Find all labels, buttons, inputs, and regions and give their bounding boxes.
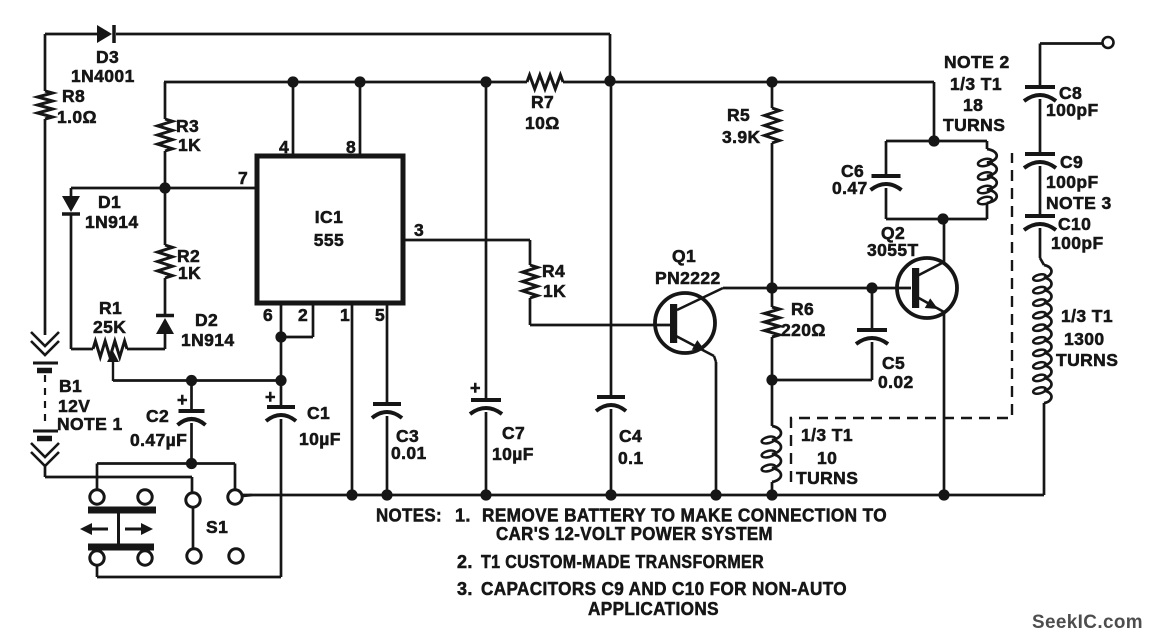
wire Q1 emitter xyxy=(710,356,721,501)
svg-text:1K: 1K xyxy=(543,281,566,301)
svg-text:T1 CUSTOM-MADE TRANSFORMER: T1 CUSTOM-MADE TRANSFORMER xyxy=(481,552,764,572)
svg-text:IC1: IC1 xyxy=(315,207,343,227)
svg-text:10: 10 xyxy=(817,448,837,468)
diode D1 xyxy=(62,188,80,349)
svg-text:TURNS: TURNS xyxy=(796,468,858,488)
svg-text:1/3 T1: 1/3 T1 xyxy=(801,425,853,445)
label R3 xyxy=(176,116,199,136)
svg-text:6: 6 xyxy=(263,305,273,325)
inductor 1/3 T1 1300 turns xyxy=(1032,265,1051,403)
svg-text:TURNS: TURNS xyxy=(943,115,1005,135)
switch S1 slider bar bottom xyxy=(88,544,154,551)
label 100pF (C10) xyxy=(1051,233,1104,253)
svg-text:1N914: 1N914 xyxy=(85,212,139,232)
resistor R4 xyxy=(523,265,538,298)
capacitor C3 xyxy=(372,404,402,501)
battery B1 bottom cell xyxy=(33,431,58,439)
label TURNS (1300t) xyxy=(1056,350,1118,370)
wire D1 to R1 xyxy=(71,348,93,351)
capacitor C4 xyxy=(596,397,626,501)
label 0.01 xyxy=(391,443,427,463)
svg-text:R5: R5 xyxy=(727,105,750,125)
svg-text:0.02: 0.02 xyxy=(878,372,914,392)
terminal antenna xyxy=(1103,37,1114,48)
label 5 xyxy=(375,305,385,325)
label R2 xyxy=(177,246,200,266)
transformer primary top edge xyxy=(886,140,987,143)
battery B1 top cell xyxy=(33,363,58,371)
wire battery to S1 pole xyxy=(45,464,192,493)
svg-text:C9: C9 xyxy=(1060,152,1083,172)
switch S1 terminal g xyxy=(187,549,201,563)
label 3055T xyxy=(867,240,919,260)
label 8 xyxy=(346,137,356,157)
label B1 xyxy=(59,376,82,396)
switch S1 terminal a xyxy=(90,490,104,504)
svg-text:1.: 1. xyxy=(455,506,471,526)
svg-text:3: 3 xyxy=(414,220,424,240)
svg-text:REMOVE BATTERY TO MAKE CONNECT: REMOVE BATTERY TO MAKE CONNECTION TO xyxy=(482,506,887,526)
wire R2 to D2 xyxy=(164,278,167,316)
label C8 xyxy=(1059,83,1082,103)
label C3 xyxy=(396,426,419,446)
pin 2 wire xyxy=(281,303,313,337)
svg-text:1N914: 1N914 xyxy=(181,330,235,350)
label 7 xyxy=(238,168,248,188)
wire R3 column xyxy=(164,82,167,119)
wire S1 bottom rail xyxy=(97,565,281,577)
svg-text:0.1: 0.1 xyxy=(618,448,644,468)
svg-text:C5: C5 xyxy=(882,353,905,373)
wire R8 to battery xyxy=(44,119,47,335)
svg-text:220Ω: 220Ω xyxy=(781,320,826,340)
svg-text:1300: 1300 xyxy=(1064,329,1105,349)
svg-text:1.0Ω: 1.0Ω xyxy=(57,107,97,127)
battery dashed link xyxy=(44,375,46,427)
wire R5 top xyxy=(766,76,777,108)
label C6 xyxy=(841,161,864,181)
label C10 xyxy=(1058,214,1091,234)
label NOTE 2 xyxy=(944,52,1010,72)
svg-text:CAR'S 12-VOLT POWER SYSTEM: CAR'S 12-VOLT POWER SYSTEM xyxy=(496,524,773,544)
svg-text:555: 555 xyxy=(314,230,344,250)
pin 8 wire xyxy=(354,76,365,156)
label NOTE 1 xyxy=(57,414,123,434)
label 18 xyxy=(963,95,983,115)
label 1K (R3) xyxy=(178,135,201,155)
svg-text:C2: C2 xyxy=(146,406,169,426)
switch S1 terminal h xyxy=(229,549,243,563)
wire R4 to Q1 base xyxy=(530,298,671,325)
label PN2222 xyxy=(655,268,721,288)
note line 3 xyxy=(457,552,764,572)
svg-text:NOTE 2: NOTE 2 xyxy=(944,52,1010,72)
label C5 xyxy=(882,353,905,373)
wire VCC mid rail (R3 top to transformer primary) xyxy=(164,81,934,84)
wire wiper rail xyxy=(113,379,281,382)
label S1 xyxy=(206,517,228,537)
pin 5 wire xyxy=(386,303,389,404)
svg-text:SeekIC.com: SeekIC.com xyxy=(1032,611,1143,633)
label Q1 xyxy=(672,246,696,266)
label R8 xyxy=(62,86,85,106)
svg-text:C10: C10 xyxy=(1058,214,1091,234)
svg-text:7: 7 xyxy=(238,168,248,188)
label 0.1 xyxy=(618,448,644,468)
note line 2 xyxy=(496,524,773,544)
wire R5 to collector node xyxy=(771,143,774,288)
wire R1 to D2 xyxy=(127,348,165,351)
svg-text:12V: 12V xyxy=(58,396,90,416)
svg-text:4: 4 xyxy=(279,137,289,157)
connector chevrons bottom xyxy=(31,443,59,466)
label 10µF (C1) xyxy=(299,429,341,449)
transistor Q2 xyxy=(897,258,957,318)
label 1300 xyxy=(1064,329,1105,349)
label C1 xyxy=(307,403,330,423)
svg-text:10µF: 10µF xyxy=(492,444,534,464)
switch S1 terminal f xyxy=(138,551,152,565)
wire node to R2 xyxy=(164,188,167,245)
svg-text:3.9K: 3.9K xyxy=(722,127,761,147)
svg-text:18: 18 xyxy=(963,95,983,115)
wire rail to primary xyxy=(928,82,939,147)
wire S1 d to ground rail xyxy=(242,495,252,496)
label 4 xyxy=(279,137,289,157)
svg-text:25K: 25K xyxy=(93,317,126,337)
svg-text:1K: 1K xyxy=(178,135,201,155)
wire R6 node to coil xyxy=(771,380,774,426)
wire pin7 node xyxy=(71,182,257,193)
wire left branch top (R8 lead) xyxy=(44,34,47,91)
label R7 xyxy=(531,92,554,112)
connector chevrons top xyxy=(31,332,59,355)
wire S1 c to g xyxy=(192,507,195,549)
resistor R5 xyxy=(765,108,780,143)
switch S1 terminal c xyxy=(186,493,200,507)
svg-text:C7: C7 xyxy=(502,423,525,443)
label 3.9K xyxy=(722,127,761,147)
label C9 xyxy=(1060,152,1083,172)
label 0.47µF xyxy=(130,430,187,450)
capacitor C1 xyxy=(266,381,296,578)
label 1/3 T1 (10t) xyxy=(801,425,853,445)
label + (C2) xyxy=(177,390,188,410)
pin 6 wire xyxy=(275,303,286,386)
resistor R2 xyxy=(158,245,173,278)
label 1.0Ω xyxy=(57,107,97,127)
label 100pF (C9) xyxy=(1046,172,1099,192)
svg-text:R3: R3 xyxy=(176,116,199,136)
note line 1 xyxy=(376,506,887,526)
label TURNS (10t) xyxy=(796,468,858,488)
capacitor C8 xyxy=(1024,87,1056,154)
label Q2 xyxy=(881,223,905,243)
svg-text:R4: R4 xyxy=(542,261,565,281)
label TURNS (18t) xyxy=(943,115,1005,135)
svg-text:100pF: 100pF xyxy=(1051,233,1104,253)
label D3 xyxy=(96,47,119,67)
svg-text:R7: R7 xyxy=(531,92,554,112)
transformer primary bottom edge xyxy=(886,218,987,221)
label 10 xyxy=(817,448,837,468)
label C4 xyxy=(619,426,642,446)
svg-text:2: 2 xyxy=(298,305,308,325)
svg-text:NOTE 1: NOTE 1 xyxy=(57,414,123,434)
svg-text:10Ω: 10Ω xyxy=(525,113,560,133)
label 1N4001 xyxy=(71,66,135,86)
label C2 xyxy=(146,406,169,426)
svg-text:100pF: 100pF xyxy=(1046,172,1099,192)
switch S1 slider link xyxy=(117,510,120,547)
svg-text:1K: 1K xyxy=(178,263,201,283)
dashed separator xyxy=(791,153,1012,482)
svg-text:1/3 T1: 1/3 T1 xyxy=(950,74,1002,94)
label 3 xyxy=(414,220,424,240)
svg-text:0.47µF: 0.47µF xyxy=(130,430,187,450)
resistor R1 (pot) xyxy=(93,341,127,357)
label R5 xyxy=(727,105,750,125)
switch S1 terminal e xyxy=(90,551,104,565)
label 1K (R4) xyxy=(543,281,566,301)
label 1N914 (D1) xyxy=(85,212,139,232)
label 100pF (C8) xyxy=(1046,100,1099,120)
pin 1 wire xyxy=(346,303,357,501)
wire R3 to node xyxy=(164,151,167,188)
label D2 xyxy=(195,310,218,330)
svg-text:R8: R8 xyxy=(62,86,85,106)
svg-text:B1: B1 xyxy=(59,376,82,396)
svg-text:S1: S1 xyxy=(206,517,228,537)
pin 3 wire xyxy=(403,240,530,265)
capacitor C5 xyxy=(772,288,888,380)
label 6 xyxy=(263,305,273,325)
svg-text:+: + xyxy=(177,390,188,410)
switch S1 terminal b xyxy=(138,490,152,504)
label IC1 xyxy=(315,207,343,227)
svg-text:10µF: 10µF xyxy=(299,429,341,449)
svg-text:C4: C4 xyxy=(619,426,642,446)
label 0.02 xyxy=(878,372,914,392)
svg-text:PN2222: PN2222 xyxy=(655,268,721,288)
label + (C1) xyxy=(265,387,276,407)
label 12V xyxy=(58,396,90,416)
svg-text:8: 8 xyxy=(346,137,356,157)
capacitor C2 xyxy=(178,375,206,469)
svg-text:3055T: 3055T xyxy=(867,240,919,260)
wire S1 top link xyxy=(97,464,235,491)
pot wiper arrow xyxy=(107,351,119,381)
resistor R3 xyxy=(158,119,173,151)
svg-text:D1: D1 xyxy=(98,192,121,212)
label 1N914 (D2) xyxy=(181,330,235,350)
label R1 xyxy=(99,298,122,318)
label C7 xyxy=(502,423,525,443)
capacitor C9 xyxy=(1024,154,1056,216)
wire ground rail xyxy=(242,494,1044,497)
note line 5 xyxy=(588,599,719,619)
pin 4 wire xyxy=(287,76,298,156)
svg-text:R1: R1 xyxy=(99,298,122,318)
capacitor C6 xyxy=(871,141,902,219)
svg-text:1/3 T1: 1/3 T1 xyxy=(1061,306,1113,326)
wire C4 column xyxy=(610,81,613,397)
svg-text:0.47: 0.47 xyxy=(832,178,868,198)
label + (C7) xyxy=(470,378,481,398)
svg-text:1: 1 xyxy=(340,305,350,325)
label 1/3 T1 (18t) xyxy=(950,74,1002,94)
label 0.47 xyxy=(832,178,868,198)
svg-text:Q1: Q1 xyxy=(672,246,696,266)
svg-text:D2: D2 xyxy=(195,310,218,330)
resistor R6 xyxy=(765,288,780,337)
switch S1 arrows xyxy=(80,523,153,535)
svg-text:5: 5 xyxy=(375,305,385,325)
svg-text:TURNS: TURNS xyxy=(1056,350,1118,370)
label 1 xyxy=(340,305,350,325)
svg-text:APPLICATIONS: APPLICATIONS xyxy=(588,599,719,619)
op-amp IC1 box xyxy=(257,156,403,303)
resistor R7 xyxy=(527,75,616,89)
label NOTE 3 xyxy=(1046,193,1112,213)
svg-text:R6: R6 xyxy=(791,299,814,319)
label 1/3 T1 (1300t) xyxy=(1061,306,1113,326)
wire antenna xyxy=(1040,44,1103,88)
svg-text:100pF: 100pF xyxy=(1046,100,1099,120)
inductor 1/3 T1 18 turns xyxy=(977,141,997,219)
label 220Ω xyxy=(781,320,826,340)
svg-text:CAPACITORS C9 AND C10 FOR NON-: CAPACITORS C9 AND C10 FOR NON-AUTO xyxy=(481,579,847,599)
wire Q2 collector xyxy=(937,213,948,262)
watermark SeekIC.com xyxy=(1032,611,1143,633)
svg-text:0.01: 0.01 xyxy=(391,443,427,463)
svg-text:+: + xyxy=(265,387,276,407)
svg-text:+: + xyxy=(470,378,481,398)
svg-text:3.: 3. xyxy=(457,579,473,599)
wire R6 bottom xyxy=(766,337,777,386)
diode D3 xyxy=(97,25,114,43)
label 25K xyxy=(93,317,126,337)
svg-text:NOTE 3: NOTE 3 xyxy=(1046,193,1112,213)
svg-text:C1: C1 xyxy=(307,403,330,423)
label R4 xyxy=(542,261,565,281)
switch S1 terminal d xyxy=(228,490,242,504)
svg-text:2.: 2. xyxy=(457,552,473,572)
label 10µF (C7) xyxy=(492,444,534,464)
label 10Ω xyxy=(525,113,560,133)
label R6 xyxy=(791,299,814,319)
label 555 xyxy=(314,230,344,250)
wire Q2 emitter xyxy=(938,312,949,501)
svg-text:1N4001: 1N4001 xyxy=(71,66,135,86)
capacitor C7 xyxy=(470,400,502,501)
wire C7 column xyxy=(480,76,491,400)
resistor R8 xyxy=(38,91,53,119)
label 1K (R2) xyxy=(178,263,201,283)
wire top rail (D3 anode rail from R8 top to C4 column) xyxy=(45,34,610,80)
switch S1 slider bar top xyxy=(88,507,156,514)
svg-text:NOTES:: NOTES: xyxy=(376,506,442,526)
wire Q1 collector rail xyxy=(723,282,911,293)
label 2 xyxy=(298,305,308,325)
transistor Q1 xyxy=(655,288,723,356)
wire secondary to ground rail xyxy=(1043,403,1046,495)
diode D2 xyxy=(156,316,174,350)
svg-text:D3: D3 xyxy=(96,47,119,67)
label D1 xyxy=(98,192,121,212)
note line 4 xyxy=(457,579,847,599)
inductor 1/3 T1 10 turns xyxy=(761,426,781,501)
capacitor C10 xyxy=(1024,216,1056,265)
